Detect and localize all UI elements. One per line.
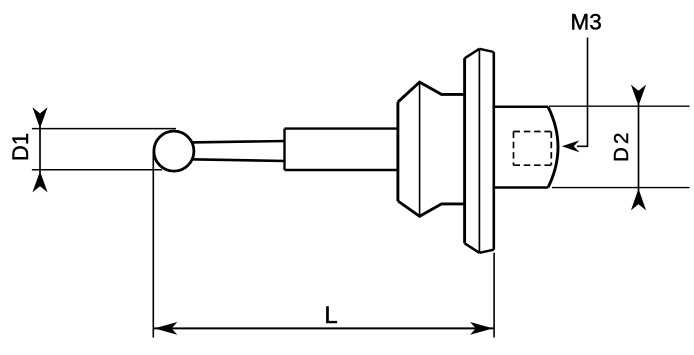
svg-text:L: L <box>324 302 337 329</box>
svg-text:D1: D1 <box>8 133 33 161</box>
svg-text:M3: M3 <box>570 10 601 35</box>
svg-text:D2: D2 <box>610 133 633 163</box>
